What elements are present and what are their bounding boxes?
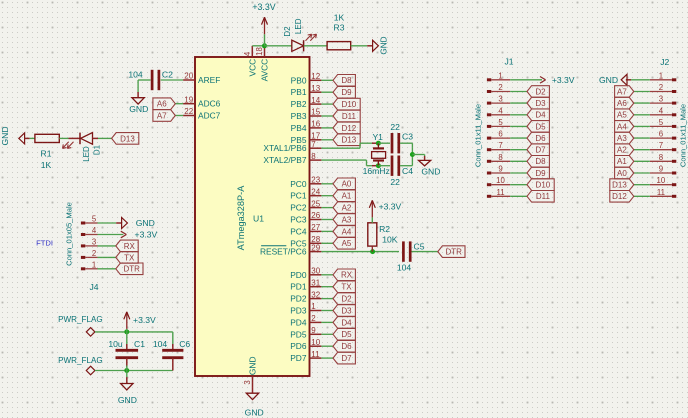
- svg-text:AVCC: AVCC: [260, 59, 270, 82]
- svg-text:D10: D10: [342, 100, 357, 109]
- svg-text:D11: D11: [536, 192, 551, 201]
- svg-text:D6: D6: [535, 134, 546, 143]
- svg-text:A2: A2: [342, 204, 352, 213]
- svg-text:A0: A0: [342, 180, 352, 189]
- svg-text:D8: D8: [535, 157, 546, 166]
- svg-text:22: 22: [390, 177, 400, 187]
- svg-text:8: 8: [311, 152, 316, 161]
- svg-text:9: 9: [498, 165, 502, 174]
- svg-text:PC1: PC1: [290, 191, 307, 201]
- svg-text:2: 2: [92, 249, 96, 258]
- svg-text:PC2: PC2: [290, 203, 307, 213]
- svg-text:D8: D8: [341, 76, 352, 85]
- svg-text:D1: D1: [92, 144, 101, 155]
- svg-text:4: 4: [92, 226, 97, 235]
- svg-text:23: 23: [311, 176, 320, 185]
- svg-text:PC3: PC3: [290, 215, 307, 225]
- svg-text:10u: 10u: [108, 339, 123, 349]
- svg-text:1: 1: [659, 71, 663, 80]
- svg-text:A4: A4: [342, 227, 352, 236]
- svg-text:7: 7: [311, 140, 316, 149]
- svg-text:7: 7: [659, 141, 663, 150]
- svg-text:PB0: PB0: [291, 75, 307, 85]
- svg-text:A1: A1: [617, 157, 627, 166]
- svg-text:+3.3V: +3.3V: [552, 75, 575, 85]
- svg-text:15: 15: [311, 108, 320, 117]
- svg-text:PWR_FLAG: PWR_FLAG: [58, 356, 103, 365]
- svg-text:GND: GND: [421, 166, 440, 176]
- svg-text:+3.3V: +3.3V: [133, 315, 156, 325]
- svg-text:3: 3: [498, 95, 502, 104]
- svg-text:A5: A5: [342, 239, 352, 248]
- svg-text:+3.3V: +3.3V: [135, 230, 158, 240]
- svg-text:PB1: PB1: [291, 87, 307, 97]
- svg-text:20: 20: [184, 72, 193, 81]
- svg-text:D2: D2: [283, 26, 292, 37]
- svg-text:11: 11: [496, 188, 504, 197]
- svg-text:GND: GND: [136, 218, 155, 228]
- svg-text:3: 3: [92, 237, 96, 246]
- svg-text:LED: LED: [294, 18, 303, 34]
- svg-text:GND: GND: [245, 408, 264, 418]
- svg-text:PD2: PD2: [290, 294, 307, 304]
- svg-text:Y1: Y1: [372, 132, 383, 142]
- svg-text:PB2: PB2: [291, 99, 307, 109]
- svg-text:2: 2: [498, 83, 502, 92]
- svg-text:C4: C4: [402, 166, 413, 176]
- svg-text:24: 24: [311, 187, 320, 196]
- svg-text:XTAL1/PB6: XTAL1/PB6: [263, 143, 306, 153]
- svg-text:A3: A3: [617, 134, 627, 143]
- svg-text:14: 14: [311, 96, 320, 105]
- svg-text:1K: 1K: [334, 13, 345, 23]
- svg-text:J1: J1: [504, 57, 513, 67]
- svg-text:PB4: PB4: [291, 123, 307, 133]
- svg-text:13: 13: [311, 84, 320, 93]
- svg-text:FTDI: FTDI: [36, 239, 53, 248]
- svg-text:ATmega328P-A: ATmega328P-A: [236, 185, 246, 251]
- svg-text:D3: D3: [341, 306, 352, 315]
- svg-text:18: 18: [255, 47, 264, 56]
- svg-text:8: 8: [498, 153, 502, 162]
- svg-text:32: 32: [311, 290, 320, 299]
- svg-text:6: 6: [498, 130, 502, 139]
- svg-text:11: 11: [657, 188, 665, 197]
- svg-text:31: 31: [311, 278, 320, 287]
- svg-text:D12: D12: [342, 124, 357, 133]
- svg-text:D13: D13: [612, 181, 627, 190]
- svg-text:A5: A5: [617, 111, 627, 120]
- svg-text:PC4: PC4: [290, 226, 307, 236]
- svg-text:R1: R1: [41, 149, 52, 159]
- svg-text:10: 10: [496, 176, 505, 185]
- svg-text:26: 26: [311, 211, 320, 220]
- svg-text:25: 25: [311, 199, 320, 208]
- svg-text:10: 10: [311, 338, 320, 347]
- svg-text:D3: D3: [535, 99, 546, 108]
- svg-text:7: 7: [498, 141, 502, 150]
- svg-text:PD4: PD4: [290, 317, 307, 327]
- svg-text:19: 19: [184, 95, 193, 104]
- svg-text:R3: R3: [334, 22, 345, 32]
- svg-text:+3.3V: +3.3V: [379, 201, 402, 211]
- svg-text:RESET/PC6: RESET/PC6: [260, 247, 307, 257]
- svg-text:ADC6: ADC6: [198, 99, 221, 109]
- svg-text:RX: RX: [341, 271, 353, 280]
- svg-text:PD7: PD7: [290, 353, 307, 363]
- svg-text:3: 3: [243, 380, 252, 384]
- svg-text:TX: TX: [341, 283, 352, 292]
- svg-text:D9: D9: [341, 88, 352, 97]
- svg-text:PB3: PB3: [291, 111, 307, 121]
- svg-text:RX: RX: [124, 242, 136, 251]
- svg-text:1K: 1K: [41, 160, 52, 170]
- svg-text:D9: D9: [535, 169, 546, 178]
- svg-text:C2: C2: [162, 69, 173, 79]
- svg-text:GND: GND: [599, 75, 618, 85]
- svg-text:D2: D2: [341, 295, 352, 304]
- svg-text:D5: D5: [535, 122, 546, 131]
- svg-text:Conn_01x11_Male: Conn_01x11_Male: [474, 104, 483, 167]
- svg-text:5: 5: [92, 215, 97, 224]
- svg-text:5: 5: [498, 118, 503, 127]
- svg-text:PD0: PD0: [290, 270, 307, 280]
- svg-text:GND: GND: [129, 104, 148, 114]
- svg-text:DTR: DTR: [445, 248, 462, 257]
- svg-text:12: 12: [311, 72, 320, 81]
- svg-text:D7: D7: [341, 354, 352, 363]
- svg-text:XTAL2/PB7: XTAL2/PB7: [263, 155, 306, 165]
- svg-text:104: 104: [397, 262, 412, 272]
- svg-text:10K: 10K: [382, 234, 398, 244]
- svg-text:A1: A1: [342, 192, 352, 201]
- svg-text:GND: GND: [118, 395, 137, 405]
- svg-text:A4: A4: [617, 122, 627, 131]
- svg-text:D10: D10: [536, 181, 551, 190]
- svg-text:A7: A7: [157, 111, 167, 120]
- svg-text:PD5: PD5: [290, 329, 307, 339]
- svg-text:6: 6: [659, 130, 663, 139]
- svg-text:9: 9: [311, 326, 316, 335]
- svg-text:2: 2: [311, 314, 316, 323]
- svg-text:29: 29: [311, 243, 320, 252]
- svg-text:C6: C6: [179, 339, 190, 349]
- svg-text:3: 3: [659, 95, 663, 104]
- svg-text:A6: A6: [617, 99, 627, 108]
- svg-text:16: 16: [311, 120, 320, 129]
- svg-text:AREF: AREF: [198, 75, 220, 85]
- svg-text:30: 30: [311, 267, 320, 276]
- svg-text:Conn_01x05_Male: Conn_01x05_Male: [64, 202, 73, 266]
- svg-text:16mHz: 16mHz: [363, 166, 390, 176]
- svg-text:D4: D4: [535, 111, 546, 120]
- svg-text:D4: D4: [341, 318, 352, 327]
- svg-text:A7: A7: [617, 87, 627, 96]
- svg-text:A3: A3: [342, 215, 352, 224]
- svg-text:1: 1: [92, 260, 96, 269]
- svg-text:J2: J2: [660, 57, 669, 67]
- svg-text:D2: D2: [535, 87, 546, 96]
- svg-text:D5: D5: [341, 330, 352, 339]
- svg-text:22: 22: [184, 107, 193, 116]
- svg-text:2: 2: [659, 83, 663, 92]
- svg-text:D7: D7: [535, 146, 546, 155]
- svg-text:PD6: PD6: [290, 341, 307, 351]
- svg-text:22: 22: [390, 122, 400, 132]
- svg-text:11: 11: [311, 350, 320, 359]
- svg-text:TX: TX: [124, 253, 135, 262]
- svg-text:5: 5: [659, 118, 664, 127]
- svg-text:+3.3V: +3.3V: [252, 2, 275, 12]
- svg-text:PWR_FLAG: PWR_FLAG: [58, 315, 103, 324]
- svg-text:D13: D13: [120, 134, 135, 143]
- svg-text:GND: GND: [0, 126, 10, 145]
- svg-text:LED: LED: [82, 146, 91, 162]
- svg-text:PD1: PD1: [290, 282, 307, 292]
- svg-text:4: 4: [498, 106, 503, 115]
- svg-text:1: 1: [311, 302, 316, 311]
- svg-text:DTR: DTR: [123, 265, 140, 274]
- svg-text:A6: A6: [157, 100, 167, 109]
- svg-text:8: 8: [659, 153, 663, 162]
- svg-text:PC0: PC0: [290, 179, 307, 189]
- svg-text:1: 1: [498, 71, 502, 80]
- svg-text:104: 104: [153, 339, 168, 349]
- svg-text:C3: C3: [402, 132, 413, 142]
- svg-text:A0: A0: [617, 169, 627, 178]
- svg-text:D11: D11: [342, 112, 357, 121]
- svg-text:GND: GND: [248, 356, 258, 375]
- svg-text:9: 9: [659, 165, 663, 174]
- svg-text:D13: D13: [342, 136, 357, 145]
- svg-text:GND: GND: [380, 36, 389, 54]
- svg-text:4: 4: [243, 51, 252, 56]
- svg-text:4: 4: [659, 106, 664, 115]
- svg-text:ADC7: ADC7: [198, 111, 221, 121]
- svg-text:R2: R2: [379, 224, 390, 234]
- svg-text:104: 104: [128, 69, 143, 79]
- svg-text:C1: C1: [134, 339, 145, 349]
- svg-text:27: 27: [311, 223, 320, 232]
- svg-text:VCC: VCC: [247, 59, 257, 77]
- svg-text:PD3: PD3: [290, 306, 307, 316]
- svg-text:A2: A2: [617, 146, 627, 155]
- svg-text:D12: D12: [612, 192, 627, 201]
- svg-text:D6: D6: [341, 342, 352, 351]
- svg-text:J4: J4: [89, 282, 98, 292]
- svg-text:10: 10: [657, 176, 666, 185]
- svg-text:Conn_01x11_Male: Conn_01x11_Male: [679, 104, 688, 167]
- svg-text:U1: U1: [253, 213, 264, 223]
- svg-text:C5: C5: [414, 242, 425, 252]
